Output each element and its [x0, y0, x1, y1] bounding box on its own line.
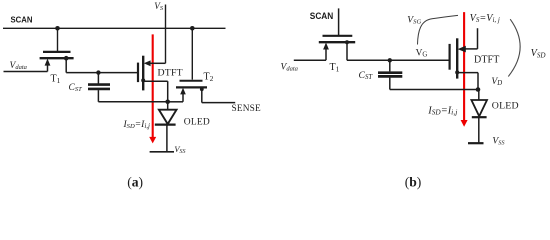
- annotation VSD brace: [508, 19, 520, 76]
- wire VS riser (b): [477, 28, 479, 49]
- svg-text:T2: T2: [204, 72, 214, 83]
- wire SCAN rail (a): [3, 27, 226, 29]
- svg-text:T1: T1: [330, 62, 340, 73]
- diode OLED (a): [155, 102, 177, 152]
- capacitor CST (b): [378, 60, 402, 89]
- wire Vdata lead (b): [294, 59, 326, 61]
- svg-text:DTFT: DTFT: [158, 68, 183, 79]
- transistor T2 (a): [176, 81, 207, 103]
- svg-text:(a): (a): [127, 174, 143, 190]
- wire SCAN gate drop (b): [338, 8, 340, 35]
- svg-text:OLED: OLED: [492, 101, 519, 112]
- wire SENSE lead (a): [202, 102, 235, 104]
- diode OLED (b): [471, 90, 487, 144]
- capacitor CST (a): [88, 73, 110, 102]
- wire T1 gate drop: [57, 28, 59, 51]
- current arrow ISD (b): [461, 12, 468, 127]
- current arrow ISD (a): [149, 34, 156, 143]
- node junction T2 gate on SCAN rail: [190, 26, 195, 31]
- node source junction (a): [165, 100, 170, 105]
- wire VS riser (a): [165, 5, 167, 64]
- svg-text:SENSE: SENSE: [232, 104, 262, 114]
- annotation VSG arc connector: [418, 15, 459, 44]
- transistor DTFT (b): [450, 38, 478, 78]
- wire T2 gate drop: [191, 28, 193, 79]
- svg-text:ISD=Ii,j: ISD=Ii,j: [123, 120, 151, 130]
- node source junction (b): [476, 87, 481, 92]
- svg-text:ISD=Ii,j: ISD=Ii,j: [427, 105, 457, 116]
- svg-text:SCAN: SCAN: [11, 15, 33, 25]
- wire T2 source to node (a): [168, 101, 183, 103]
- svg-text:(b): (b): [405, 174, 422, 190]
- wire DTFT source drop (a): [167, 81, 169, 102]
- node junction CST top (a): [96, 70, 100, 74]
- wire Vdata lead (a): [4, 71, 48, 73]
- svg-text:DTFT: DTFT: [474, 54, 499, 65]
- svg-text:OLED: OLED: [184, 118, 210, 128]
- wire CST bottom to source node (a): [98, 101, 167, 103]
- wire T1 to DTFT gate VG (b): [347, 59, 450, 61]
- wire CST bottom to source node (b): [390, 89, 478, 91]
- svg-text:SCAN: SCAN: [310, 10, 334, 21]
- ground VSS terminal (b): [468, 142, 484, 144]
- wire T1 drain to DTFT gate (a): [66, 72, 138, 74]
- transistor T1 (a): [40, 52, 74, 73]
- ground VSS terminal (a): [150, 151, 174, 153]
- svg-text:T1: T1: [51, 74, 61, 85]
- transistor DTFT (a): [138, 56, 168, 91]
- wire DTFT source drop (b): [477, 73, 479, 90]
- node junction T1 gate on SCAN rail: [55, 26, 60, 31]
- transistor T1 (b): [319, 36, 355, 61]
- node junction CST top (b): [388, 58, 392, 62]
